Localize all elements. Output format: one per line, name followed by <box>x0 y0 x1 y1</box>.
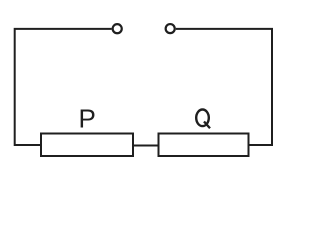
svg-text:P: P <box>79 103 96 133</box>
